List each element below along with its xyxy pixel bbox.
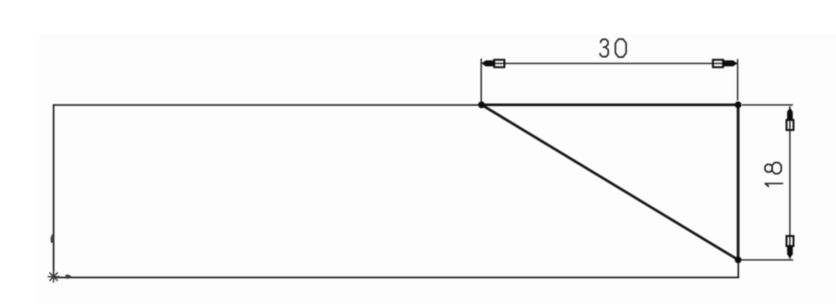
dimension 30 left arrowhead bbox=[482, 60, 495, 66]
wire: left vertical thin sketch line bbox=[53, 104, 55, 277]
dimension 18 top arrowhead bbox=[787, 108, 793, 121]
digit 1 bbox=[765, 184, 782, 187]
wire: dimension 18 top extension line bbox=[742, 104, 793, 106]
origin marker asterisk bbox=[48, 271, 60, 283]
dimension 30 right arrow grip box bbox=[713, 60, 723, 67]
wire: dimension 18 dimension line bbox=[789, 106, 791, 258]
wire: dimension 30 dimension line bbox=[482, 62, 737, 64]
node C: sketch point bottom-right bbox=[735, 256, 742, 263]
digit 8 bottom lobe bbox=[772, 163, 781, 174]
wire: dimension 18 bottom extension line bbox=[742, 259, 794, 261]
dimension 18 bottom arrowhead bbox=[787, 246, 793, 258]
value label 30: digit 3 bbox=[600, 39, 608, 56]
wire: lower-right thin vertical sketch line bbox=[737, 260, 739, 278]
origin horizontal axis arrow bbox=[65, 275, 72, 279]
node A: sketch point top-left of thick line bbox=[478, 101, 485, 108]
node B: sketch point top-right corner bbox=[735, 101, 742, 108]
wire: top thick selected line bbox=[482, 103, 739, 106]
origin vertical axis arrow bbox=[51, 234, 55, 243]
dimension 30 left arrow grip box bbox=[494, 60, 504, 67]
value label 30: digit 0 bbox=[615, 39, 626, 57]
value label 18 (rotated) bbox=[765, 163, 783, 187]
dimension 30 right arrowhead bbox=[723, 60, 737, 66]
wire: diagonal thick selected line bbox=[482, 105, 739, 260]
wire: top-left thin horizontal sketch line bbox=[53, 104, 482, 106]
wire: bottom thin horizontal sketch line bbox=[53, 276, 739, 278]
wire: right thick selected vertical line bbox=[737, 105, 740, 260]
wire: dimension 30 left extension line bbox=[480, 59, 482, 102]
wire: dimension 30 right extension line bbox=[737, 59, 739, 101]
digit 8 top lobe bbox=[765, 164, 772, 172]
dimension 18 top arrow grip box bbox=[787, 120, 794, 130]
dimension 18 bottom arrow grip box bbox=[787, 236, 794, 246]
